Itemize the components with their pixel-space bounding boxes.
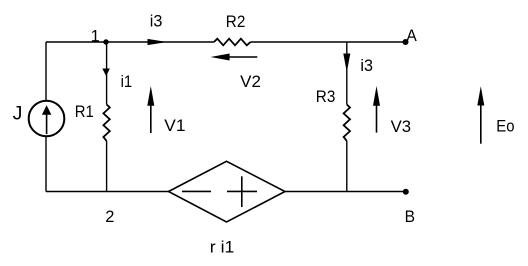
svg-text:R2: R2 (226, 13, 246, 31)
svg-text:V2: V2 (240, 73, 261, 91)
svg-text:V1: V1 (164, 117, 185, 135)
resistor R3 (344, 105, 350, 141)
svg-text:r i1: r i1 (210, 238, 235, 256)
wire R3 branch upper (top rail down to R3) (346, 42, 348, 105)
wire bottom rail right segment (dependent source to node B) (285, 191, 406, 193)
svg-text:1: 1 (91, 28, 100, 46)
current arrow i3 on top rail (148, 39, 168, 45)
svg-text:J: J (13, 102, 23, 124)
svg-text:i1: i1 (121, 73, 133, 91)
current arrow i3 (down, R3 branch) (343, 54, 350, 73)
svg-text:V3: V3 (391, 118, 411, 136)
wire top rail right segment (R2 to node A) (251, 41, 406, 43)
current source J (29, 101, 65, 137)
voltage arrow V3 (up) (376, 101, 378, 133)
svg-text:R3: R3 (316, 88, 336, 106)
wire bottom rail left segment (to dependent source) (46, 191, 169, 193)
label node 1 (92, 40, 98, 42)
node B dot (403, 189, 409, 195)
minus sign inside diamond (182, 190, 211, 192)
wire top rail left segment (node1 to R2) (46, 41, 214, 43)
wire R3 branch lower (R3 to bottom rail) (346, 141, 348, 192)
svg-text:i3: i3 (360, 57, 373, 75)
svg-text:R1: R1 (75, 103, 94, 121)
voltage arrow V2 (left) (229, 56, 257, 58)
resistor R1 (103, 105, 109, 141)
svg-text:Eo: Eo (496, 117, 514, 135)
current arrow i1 (down, R1 branch) (102, 69, 110, 77)
dependent source diamond r i1 (169, 161, 286, 222)
svg-text:A: A (406, 27, 416, 45)
resistor R2 (214, 39, 251, 46)
node A dot (403, 39, 409, 45)
voltage arrow V1 (up) (150, 101, 152, 133)
voltage arrow Eo (up) (480, 101, 482, 144)
svg-text:2: 2 (105, 208, 114, 226)
svg-text:i3: i3 (150, 13, 163, 31)
wire R1 branch lower (R1 to bottom rail) (106, 141, 108, 192)
wire left branch upper (top rail down to source J) (45, 42, 47, 101)
plus sign inside diamond (227, 190, 257, 192)
wire R1 branch upper (node 1 down to R1) (106, 42, 108, 105)
wire left branch lower (source J to bottom rail) (45, 136, 47, 192)
node 1 junction dot (103, 39, 108, 44)
svg-text:B: B (405, 208, 415, 226)
